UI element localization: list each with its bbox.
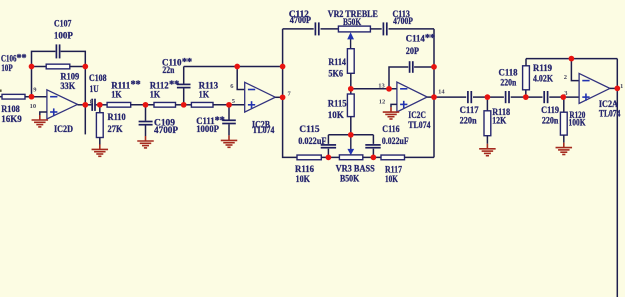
op-amp IC2A bbox=[579, 73, 610, 103]
wire IC2C noninv to ground bbox=[391, 104, 397, 107]
wire IC2A output bbox=[610, 87, 617, 89]
resistor R117 bbox=[381, 155, 405, 160]
capacitor C113 bbox=[383, 22, 386, 35]
svg-text:C106: C106 bbox=[1, 55, 17, 65]
svg-text:R110: R110 bbox=[108, 113, 126, 123]
resistor R111 bbox=[107, 102, 131, 107]
wire C116 bottom stem bbox=[372, 149, 374, 158]
svg-text:R115: R115 bbox=[328, 100, 347, 110]
node R113-C111 node bbox=[226, 102, 232, 108]
svg-text:22n: 22n bbox=[162, 66, 175, 76]
svg-text:1000P: 1000P bbox=[196, 125, 219, 135]
svg-text:1U: 1U bbox=[90, 85, 99, 95]
svg-text:220n: 220n bbox=[542, 117, 559, 127]
node IC2C inv node bbox=[386, 86, 392, 92]
wire C118 to node bbox=[511, 96, 526, 98]
svg-text:R116: R116 bbox=[295, 165, 314, 175]
svg-text:220n: 220n bbox=[500, 78, 517, 88]
wire C108 to node bbox=[96, 104, 100, 106]
wire IC2C output net vertical bbox=[433, 29, 435, 158]
svg-text:**: ** bbox=[17, 53, 27, 64]
wire treble row left bbox=[283, 28, 314, 30]
svg-text:IC2A: IC2A bbox=[599, 100, 618, 110]
svg-text:4700P: 4700P bbox=[154, 126, 178, 136]
wire IC2D output bbox=[78, 104, 86, 106]
svg-text:C119: C119 bbox=[541, 106, 559, 116]
svg-text:5K6: 5K6 bbox=[328, 70, 343, 80]
svg-text:1: 1 bbox=[620, 83, 623, 90]
capacitor C114 bbox=[410, 61, 413, 73]
capacitor C111 bbox=[222, 120, 236, 123]
capacitor C118 bbox=[506, 91, 509, 103]
ground IC2D noninv ground bbox=[32, 115, 49, 127]
svg-text:4.02K: 4.02K bbox=[533, 75, 554, 85]
wire node to C111 bbox=[228, 105, 230, 120]
wire C119 to node bbox=[549, 96, 563, 98]
svg-text:20P: 20P bbox=[406, 47, 419, 57]
svg-text:2: 2 bbox=[564, 74, 567, 81]
resistor R112 bbox=[154, 102, 176, 107]
resistor R109 bbox=[46, 64, 70, 69]
svg-text:12: 12 bbox=[379, 98, 386, 105]
wire C107 branch right bbox=[61, 51, 86, 66]
resistor R114 bbox=[347, 49, 354, 74]
svg-text:C116: C116 bbox=[382, 125, 400, 135]
svg-text:**: ** bbox=[169, 80, 179, 91]
node IC2A inv tap bbox=[569, 56, 575, 62]
wire IC2B output bbox=[275, 96, 282, 98]
svg-text:13: 13 bbox=[378, 83, 385, 90]
svg-text:12K: 12K bbox=[492, 117, 507, 127]
node C119-R120 node bbox=[560, 94, 566, 100]
wire node to IC2A noninv bbox=[563, 96, 579, 98]
wire C117 to node bbox=[473, 96, 487, 98]
wire C107 branch left bbox=[32, 51, 56, 66]
wire bass top bar bbox=[328, 134, 373, 136]
svg-text:B50K: B50K bbox=[343, 18, 362, 28]
wire R116 to VR3 bbox=[321, 156, 339, 158]
svg-text:0.022uF: 0.022uF bbox=[382, 137, 409, 147]
wire node to R120 bbox=[563, 97, 565, 112]
node C114 treble node bbox=[431, 64, 437, 70]
capacitor C112 bbox=[315, 22, 318, 35]
wire R115 to bass node bbox=[350, 117, 352, 135]
ground R118 ground bbox=[479, 144, 496, 156]
svg-text:10K: 10K bbox=[296, 175, 311, 185]
capacitor C110 bbox=[177, 84, 191, 87]
node C117-R118 node bbox=[485, 94, 491, 100]
svg-text:VR3 BASS: VR3 BASS bbox=[336, 164, 375, 174]
wire output net down right edge bbox=[616, 59, 618, 297]
svg-text:**: ** bbox=[425, 33, 435, 44]
wire C109 to ground bbox=[145, 126, 147, 137]
svg-text:10K: 10K bbox=[328, 111, 345, 121]
ground C109 ground bbox=[137, 136, 154, 148]
wire node to C109 bbox=[145, 105, 147, 121]
wire R110 to ground bbox=[99, 138, 101, 145]
wire IC2B output net vertical bbox=[283, 29, 297, 158]
wire VR2 to C113 bbox=[370, 28, 381, 30]
wire IC2A feedback rail bbox=[526, 58, 617, 60]
resistor R108 bbox=[2, 94, 25, 99]
wire IC2B inv feedback bbox=[237, 67, 245, 90]
wire R109 lead left bbox=[32, 66, 47, 68]
wire IC2C output bbox=[427, 96, 434, 98]
capacitor C108 bbox=[92, 99, 95, 111]
resistor R115 bbox=[347, 94, 354, 117]
svg-text:27K: 27K bbox=[108, 125, 124, 135]
wire input stub to R108 bbox=[0, 96, 2, 98]
wire C116 top stem bbox=[372, 135, 374, 144]
resistor R113 bbox=[191, 102, 213, 107]
svg-text:4700P: 4700P bbox=[290, 16, 311, 26]
resistor R120 bbox=[560, 112, 567, 135]
svg-text:16K9: 16K9 bbox=[1, 115, 22, 125]
node C108-R110-R111 node bbox=[97, 102, 103, 108]
resistor R110 bbox=[96, 113, 103, 138]
wire node to R119 bbox=[525, 90, 527, 97]
svg-text:1K: 1K bbox=[150, 91, 161, 101]
svg-text:C107: C107 bbox=[54, 20, 72, 30]
resistor VR2 treble pot bbox=[338, 26, 370, 32]
wire R111 to R112 bbox=[131, 104, 154, 106]
resistor R119 bbox=[523, 66, 530, 90]
svg-text:R108: R108 bbox=[1, 105, 20, 115]
wire C112 to VR2 bbox=[321, 28, 339, 30]
wire node to R118 bbox=[486, 97, 488, 111]
wire inv node up to feedback bbox=[31, 67, 33, 97]
wire node to C118 bbox=[487, 96, 504, 98]
wire node to IC2C inv bbox=[351, 88, 397, 90]
wire R108 to IC2D inv input bbox=[25, 96, 47, 98]
svg-text:B50K: B50K bbox=[340, 175, 360, 185]
wire R114 to R115 bbox=[350, 73, 352, 94]
node C118-R119 node bbox=[523, 94, 529, 100]
svg-text:C118: C118 bbox=[499, 68, 518, 78]
ground R120 ground bbox=[556, 143, 573, 155]
svg-text:14: 14 bbox=[438, 88, 445, 95]
node R114-R115 node bbox=[348, 86, 354, 92]
node IC2D feedback top left bbox=[29, 64, 35, 70]
svg-text:10K: 10K bbox=[385, 175, 398, 185]
wire R119 to feedback rail bbox=[525, 59, 527, 66]
wire bypass rail C110 to IC2B output net bbox=[184, 66, 283, 68]
node IC2C output node bbox=[431, 94, 437, 100]
wire output to C108 bbox=[85, 104, 91, 106]
wire IC2D noninv to ground bbox=[40, 112, 47, 115]
svg-text:100K: 100K bbox=[569, 119, 586, 129]
wire C110 up to bypass rail bbox=[183, 67, 185, 84]
svg-text:TL074: TL074 bbox=[599, 110, 621, 120]
wire node to R110 bbox=[99, 105, 101, 113]
wire R113 to IC2B noninv bbox=[213, 104, 245, 106]
capacitor C116 bbox=[365, 145, 380, 148]
op-amp IC2B bbox=[245, 82, 276, 112]
ground R110 ground bbox=[92, 144, 109, 156]
svg-text:4700P: 4700P bbox=[393, 17, 413, 27]
wire feedback down to IC2D output and stub bbox=[84, 67, 86, 135]
svg-text:C117: C117 bbox=[460, 106, 479, 116]
svg-text:IC2D: IC2D bbox=[54, 125, 73, 135]
capacitor C107 bbox=[56, 44, 59, 58]
node C115 bass node bbox=[326, 155, 332, 161]
svg-text:R117: R117 bbox=[385, 165, 402, 175]
wire R118 to ground bbox=[486, 136, 488, 144]
op-amp IC2D bbox=[47, 90, 78, 119]
wire VR3 to R117 bbox=[363, 156, 381, 158]
wire R117 to IC2C output net bbox=[405, 156, 435, 158]
node C116 bass node bbox=[371, 155, 377, 161]
svg-text:C108: C108 bbox=[89, 74, 107, 84]
svg-text:**: ** bbox=[182, 57, 192, 68]
svg-text:C114: C114 bbox=[406, 35, 425, 45]
svg-text:**: ** bbox=[131, 80, 141, 91]
svg-text:R114: R114 bbox=[328, 58, 346, 68]
resistor R116 bbox=[297, 155, 321, 160]
capacitor C115 bbox=[321, 145, 336, 148]
wire C115 bottom stem bbox=[327, 149, 329, 158]
svg-text:C115: C115 bbox=[299, 125, 319, 135]
wire R120 to ground bbox=[563, 135, 565, 143]
wire node to R111 bbox=[100, 104, 107, 106]
svg-text:IC2C: IC2C bbox=[408, 111, 426, 121]
wire IC2C out to C117 bbox=[434, 96, 466, 98]
node IC2D feedback top right bbox=[82, 64, 88, 70]
VR3 wiper arrow bbox=[347, 135, 354, 155]
op-amp IC2C bbox=[397, 82, 427, 112]
node bass wiper node bbox=[348, 132, 354, 138]
node rail treble tap bbox=[280, 64, 286, 70]
node IC2B output node bbox=[280, 94, 286, 100]
node R112-R113 node bbox=[181, 102, 187, 108]
ground IC2C noninv ground bbox=[383, 107, 400, 119]
resistor R118 bbox=[484, 111, 491, 136]
wire R109 lead right bbox=[70, 66, 86, 68]
node IC2D inv node bbox=[29, 94, 35, 100]
svg-text:10P: 10P bbox=[1, 64, 13, 74]
wire C114 to output net bbox=[414, 66, 434, 68]
node rail IC2B inv tap bbox=[234, 64, 240, 70]
svg-text:33K: 33K bbox=[60, 82, 75, 92]
wire C115 top stem bbox=[327, 135, 329, 144]
capacitor C117 bbox=[468, 91, 471, 103]
wire R112 to R113 bbox=[176, 104, 192, 106]
capacitor C119 bbox=[544, 91, 547, 103]
wire IC2C feedback up bbox=[389, 67, 408, 89]
resistor VR3 bass pot bbox=[339, 155, 362, 160]
svg-text:10: 10 bbox=[30, 103, 36, 110]
svg-text:220n: 220n bbox=[460, 117, 478, 127]
svg-text:TL074: TL074 bbox=[408, 121, 430, 131]
svg-text:1K: 1K bbox=[111, 91, 122, 101]
node IC2D output node bbox=[82, 102, 88, 108]
stray mark at left edge bbox=[0, 90, 2, 92]
wire C111 to ground bbox=[228, 124, 230, 135]
wire node to C119 bbox=[526, 96, 543, 98]
node R111-R112 node bbox=[143, 102, 149, 108]
VR2 wiper arrow bbox=[347, 32, 354, 48]
node IC2A output node bbox=[614, 86, 620, 92]
svg-text:1K: 1K bbox=[199, 91, 210, 101]
svg-text:R119: R119 bbox=[533, 64, 552, 74]
wire IC2A inv feedback bbox=[571, 59, 579, 81]
wire node to C110 bbox=[183, 88, 185, 105]
capacitor C109 bbox=[139, 122, 153, 125]
svg-text:TL074: TL074 bbox=[252, 126, 274, 136]
svg-text:0.022uF: 0.022uF bbox=[298, 137, 326, 147]
svg-text:100P: 100P bbox=[54, 31, 73, 41]
ground C111 ground bbox=[221, 135, 238, 147]
wire C113 to right net bbox=[389, 28, 435, 30]
